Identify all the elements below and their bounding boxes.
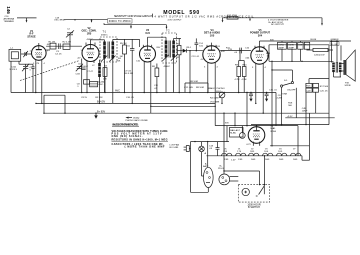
svg-text:455KC: 455KC <box>164 66 171 68</box>
switch S1 on-off <box>281 80 297 91</box>
svg-text:C7 47: C7 47 <box>87 71 94 73</box>
resistor R12 470 on leader <box>227 15 238 19</box>
svg-text:ONE (NO) SIGNAL.: ONE (NO) SIGNAL. <box>112 135 143 138</box>
svg-text:B- 4.5V: B- 4.5V <box>97 101 106 104</box>
AVC rail <box>11 90 276 93</box>
svg-text:13Ω: 13Ω <box>224 159 228 161</box>
note 4 volts negative <box>268 19 289 27</box>
label IF freq <box>164 66 171 68</box>
antenna loop L1 <box>9 47 21 61</box>
power plug P1 <box>184 146 191 152</box>
variable capacitor C1A <box>10 64 30 71</box>
capacitor C17B <box>288 41 297 61</box>
svg-text:50Ω: 50Ω <box>279 159 283 161</box>
notes block <box>112 130 169 148</box>
svg-text:C4 .05: C4 .05 <box>55 54 62 56</box>
label V1 pins <box>30 50 49 65</box>
svg-text:4.7V: 4.7V <box>246 144 251 146</box>
speaker <box>340 50 355 87</box>
label V2 pins <box>81 50 100 52</box>
svg-text:R8 10M: R8 10M <box>196 87 204 89</box>
svg-text:C1B: C1B <box>76 73 81 75</box>
wire V4 cathode drops <box>207 65 216 107</box>
svg-text:R8 10M: R8 10M <box>190 81 198 83</box>
label TONE <box>281 94 288 96</box>
svg-text:50Ω: 50Ω <box>265 159 269 161</box>
wire transformer primary leads <box>332 41 342 63</box>
label V4 <box>204 29 220 38</box>
svg-text:ON-OFF: ON-OFF <box>287 90 296 92</box>
label R11 <box>226 48 231 50</box>
label V5 pin <box>252 67 267 69</box>
svg-text:-6V: -6V <box>77 58 81 60</box>
wire C1A to AVC rail <box>25 69 27 93</box>
svg-text:455KC: 455KC <box>101 34 108 36</box>
leader wire output measurement <box>222 18 323 26</box>
resistor R8 hanging <box>152 64 159 94</box>
oscillator coil L2 <box>86 60 101 104</box>
capacitor C17A <box>278 41 287 61</box>
svg-text:C15 .01: C15 .01 <box>269 90 277 92</box>
capacitor C20 <box>313 88 328 92</box>
wire V5 plate to output transformer <box>260 40 352 41</box>
svg-text:SENSITIVITY AND STAGE GAINS AT: SENSITIVITY AND STAGE GAINS AT <box>114 15 153 18</box>
resistor R3 <box>103 65 108 93</box>
B minus rail <box>35 101 215 104</box>
trimmer TP <box>66 28 74 46</box>
resistor R9 <box>235 61 241 94</box>
svg-text:B SWITCH: B SWITCH <box>248 206 260 209</box>
B battery dashed box <box>238 184 269 202</box>
svg-text:1R5: 1R5 <box>87 32 92 35</box>
label 1.4V filament <box>231 159 236 161</box>
svg-text:1U5: 1U5 <box>210 34 215 37</box>
wire V1 plate row <box>46 46 82 50</box>
capacitor C16b <box>265 90 278 102</box>
svg-text:UNLESS OTHERWISE NOTED:: UNLESS OTHERWISE NOTED: <box>112 124 139 127</box>
note sensitivity line <box>114 14 254 22</box>
svg-text:LOOP AN: LOOP AN <box>170 144 180 147</box>
output transformer T3 <box>332 62 341 77</box>
svg-text:1M: 1M <box>120 56 123 58</box>
svg-text:50A1: 50A1 <box>270 127 276 130</box>
leader wire IF alignment <box>104 23 167 29</box>
label V5 values <box>245 47 250 59</box>
B plus rail <box>44 111 329 114</box>
wire V1 cathode drops <box>35 62 42 104</box>
wire detector load <box>185 81 208 92</box>
svg-text:R6 3.3M: R6 3.3M <box>125 73 133 75</box>
wire lower B segment <box>285 116 334 118</box>
svg-text:CR-1: CR-1 <box>186 47 192 49</box>
wire V5 cathode drops <box>255 66 264 114</box>
label R12b below <box>154 85 159 90</box>
coil box A-434 <box>90 80 105 86</box>
wire filament loop <box>270 113 310 160</box>
svg-text:R5 1M: R5 1M <box>120 43 127 45</box>
svg-text:2.2M: 2.2M <box>277 97 282 99</box>
label R3 below rail <box>95 97 103 99</box>
capacitor C18 power <box>209 145 220 155</box>
svg-text:R4 1/2M: R4 1/2M <box>210 98 218 100</box>
label V4 voltages <box>200 51 225 61</box>
svg-text:C10 .05: C10 .05 <box>126 97 134 99</box>
pilot lamp <box>199 142 207 176</box>
svg-text:OSC.TRIM.: OSC.TRIM. <box>54 20 66 22</box>
wire battery connections <box>208 155 265 192</box>
svg-text:50Ω: 50Ω <box>293 159 297 161</box>
wire power entry <box>191 141 230 192</box>
svg-text:35W4: 35W4 <box>270 131 276 133</box>
resistor R5 <box>120 39 127 93</box>
wire detector audio junctions <box>250 92 251 94</box>
tube V4 <box>203 43 221 65</box>
resistor R7 <box>177 38 181 93</box>
svg-text:-1V: -1V <box>200 59 204 61</box>
svg-text:PLUG: PLUG <box>218 168 224 170</box>
wire screen line <box>269 45 329 62</box>
svg-text:OSC.: OSC. <box>98 84 104 86</box>
label C2 value <box>30 67 34 71</box>
svg-text:A-434: A-434 <box>98 80 105 83</box>
svg-text:RESISTORS IN OHMS K=1000, M=1: RESISTORS IN OHMS K=1000, M=1 MEG <box>112 139 168 142</box>
filament dropping resistor chain <box>207 153 303 156</box>
label C10 below rail <box>126 97 134 99</box>
resistor R15 <box>306 83 312 87</box>
wire osc grid drop <box>81 59 82 94</box>
capacitor C5 <box>78 63 86 69</box>
label C9 below rail <box>81 97 88 99</box>
label osc grid <box>77 58 81 60</box>
label C10b <box>136 60 141 62</box>
svg-text:M-8A: M-8A <box>230 132 236 135</box>
boxed label BL-GR <box>330 42 339 46</box>
svg-text:SPKR.: SPKR. <box>345 85 352 87</box>
wire bus to power section <box>151 92 276 174</box>
notes heading <box>112 124 139 127</box>
capacitor C6 <box>127 39 134 104</box>
label R4 <box>117 58 122 62</box>
wire rectifier feed <box>207 142 209 168</box>
label V1 plate voltage <box>47 44 51 46</box>
labels filament chain tubes <box>223 149 296 153</box>
wire V4 plate to V5 grid <box>220 50 251 51</box>
title MODEL 590 <box>163 10 199 16</box>
label C16 antenna trimmer <box>4 16 15 23</box>
transformer T2 <box>148 29 182 92</box>
svg-text:45V: 45V <box>47 44 51 46</box>
wire antenna to V1 grid <box>21 53 32 55</box>
tube V1 <box>32 43 47 65</box>
label C18 osc trimmer <box>54 17 66 21</box>
wire bottom return line <box>251 124 329 125</box>
resistor R17 <box>307 48 334 56</box>
svg-text:BALLAST: BALLAST <box>230 129 240 132</box>
label pin numbers V4 <box>204 67 219 69</box>
label C8 osc <box>77 84 81 88</box>
svg-text:C17B: C17B <box>288 44 294 46</box>
label diode CR1 <box>186 47 192 49</box>
svg-text:NO OUTPUT: NO OUTPUT <box>271 24 285 26</box>
labels filament chain values <box>224 159 297 161</box>
wire output section verticals <box>271 45 329 146</box>
page number 146 <box>6 6 11 14</box>
svg-text:TONE: TONE <box>281 94 288 96</box>
tube V3 <box>140 39 156 63</box>
label V5 voltage <box>270 39 274 41</box>
svg-text:146: 146 <box>6 6 11 14</box>
rectifier tube V6 <box>248 126 265 146</box>
svg-text:3V4: 3V4 <box>258 34 263 37</box>
svg-text:PHONO JACK ON MB: PHONO JACK ON MB <box>126 119 149 122</box>
diode detector <box>177 49 203 93</box>
svg-text:9-125.5: 9-125.5 <box>10 69 18 71</box>
label V2 <box>82 27 97 36</box>
tube V2 <box>82 39 99 63</box>
label V1 <box>27 30 36 39</box>
label R6 value <box>120 56 123 58</box>
label R7 value <box>177 57 180 59</box>
svg-text:VOLUME: VOLUME <box>210 102 220 104</box>
wire color label GREEN <box>331 39 339 41</box>
svg-text:85V: 85V <box>157 47 161 49</box>
dashed gang link <box>20 61 80 81</box>
svg-text:C12 .005: C12 .005 <box>184 87 194 89</box>
capacitor C3 <box>56 43 60 53</box>
svg-text:AVC: AVC <box>115 90 120 93</box>
wire feedback loop <box>43 95 65 114</box>
svg-text:RC-1485: RC-1485 <box>170 147 180 149</box>
capacitor C18A <box>298 41 303 61</box>
trimmer C16 <box>23 51 28 57</box>
label C13 <box>192 56 200 58</box>
svg-text:R12 470Ω: R12 470Ω <box>227 15 237 17</box>
label V3 <box>145 29 150 35</box>
svg-text:20MF: 20MF <box>288 47 294 49</box>
svg-text:B+ 90V: B+ 90V <box>97 111 105 114</box>
svg-text:90V: 90V <box>225 122 229 124</box>
note box 600KC TO 455KC <box>108 19 133 23</box>
label detector values <box>184 87 204 89</box>
svg-text:BLUE: BLUE <box>311 39 317 41</box>
wire color label BLUE <box>311 39 317 41</box>
svg-text:1200Ω 1W: 1200Ω 1W <box>314 54 325 56</box>
transformer T1 <box>91 31 140 104</box>
label V5 <box>250 29 270 38</box>
svg-text:B 100-C: B 100-C <box>80 66 88 68</box>
svg-text:STAGE: STAGE <box>27 35 36 38</box>
svg-text:13Ω: 13Ω <box>238 159 242 161</box>
svg-text:{ MORE THAN ONE MMF: { MORE THAN ONE MMF <box>125 145 166 148</box>
label C4 <box>55 54 62 56</box>
svg-text:GREEN: GREEN <box>331 39 339 41</box>
ground <box>94 113 98 119</box>
A battery oval <box>203 162 213 187</box>
svg-text:90V: 90V <box>270 39 274 41</box>
svg-text:C13 .01: C13 .01 <box>192 56 200 58</box>
resistor R18 label <box>288 102 293 107</box>
resistor R2 <box>63 42 71 50</box>
resistor R16b <box>313 83 329 87</box>
ballast box M-8A <box>230 126 252 146</box>
label V3 voltage <box>157 47 161 49</box>
label loop antenna note <box>170 144 180 150</box>
label phono jack <box>125 117 148 122</box>
wire V3 cathode drops <box>144 64 152 114</box>
svg-text:C9 15: C9 15 <box>81 97 88 99</box>
svg-text:TRIMMER: TRIMMER <box>4 21 15 23</box>
resistor R10 <box>239 51 248 93</box>
svg-text:600KC TO 455KC: 600KC TO 455KC <box>109 20 131 23</box>
label B battery voltage <box>225 122 229 124</box>
wire B+ feed line <box>269 61 334 62</box>
svg-text:50Ω: 50Ω <box>251 159 255 161</box>
svg-text:22K: 22K <box>117 61 121 63</box>
wire antenna legs <box>11 61 26 92</box>
leader wire C18 <box>65 19 108 22</box>
label B battery <box>247 203 261 209</box>
label V6 <box>270 126 276 133</box>
label C9 R6 <box>125 71 133 76</box>
svg-text:1U4: 1U4 <box>145 32 150 35</box>
resistor R2 osc box <box>80 66 94 84</box>
leader wire C16 <box>17 18 37 23</box>
svg-text:40V: 40V <box>221 51 225 53</box>
svg-text:10MF: 10MF <box>302 111 308 113</box>
tube V5 <box>251 41 268 66</box>
label radio phono switch <box>209 87 225 93</box>
capacitor C19 <box>306 88 312 92</box>
svg-text:R1 1M: R1 1M <box>49 41 56 43</box>
svg-text:4.5V OUTPUT: 4.5V OUTPUT <box>168 20 183 22</box>
svg-text:RADIO PHONO: RADIO PHONO <box>209 87 225 90</box>
svg-text:C17A: C17A <box>278 43 284 46</box>
variable capacitor C1B <box>76 64 84 76</box>
phono motor circle <box>218 166 230 185</box>
resistor R1 <box>49 41 57 49</box>
capacitor C2 <box>26 64 35 92</box>
svg-text:1.4V: 1.4V <box>231 159 236 161</box>
capacitor C4B label <box>302 108 308 113</box>
resistor R16 box <box>304 42 309 49</box>
label C8 <box>277 95 282 100</box>
svg-text:20MF: 20MF <box>278 47 284 49</box>
volume control R4A <box>210 92 225 104</box>
label R13 <box>266 53 271 57</box>
capacitor C15 coupling <box>228 48 242 55</box>
svg-text:R3 11K: R3 11K <box>95 97 103 99</box>
wire power feed top <box>215 125 298 156</box>
svg-text:+9.3V: +9.3V <box>287 116 293 118</box>
capacitor C13 <box>249 94 253 102</box>
capacitor C14 <box>195 38 204 51</box>
